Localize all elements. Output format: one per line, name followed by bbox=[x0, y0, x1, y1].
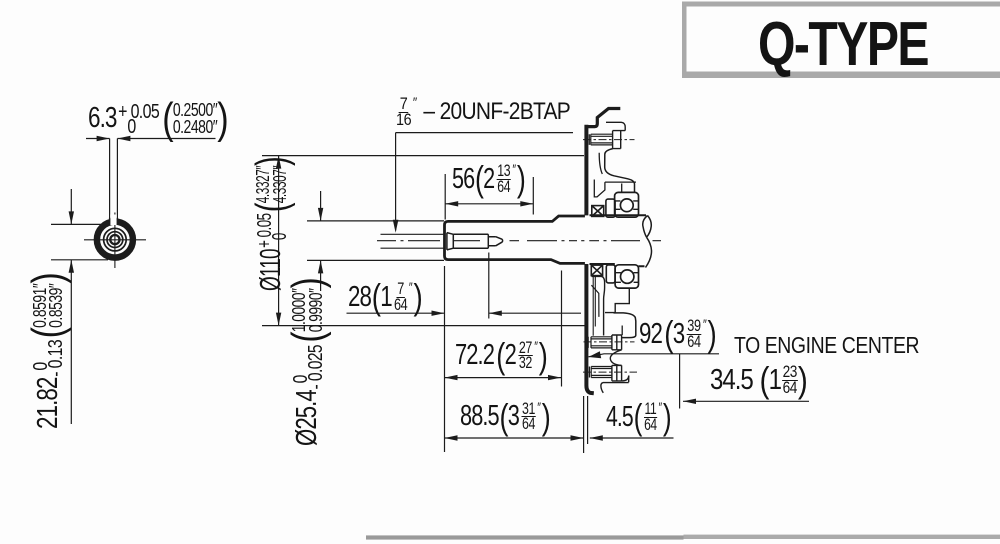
wire: 72.2 extension line at step bbox=[561, 271, 563, 387]
center hole circle 1 bbox=[104, 228, 127, 251]
arrow 6.3 right bbox=[117, 136, 130, 141]
arrow O25.4 top bbox=[318, 208, 323, 221]
label 92 bbox=[639, 317, 716, 351]
bearing housing bottom bbox=[615, 265, 638, 288]
wire: 72.2 dimension line bbox=[445, 377, 562, 379]
wire: shaft-end long extension line bbox=[444, 266, 446, 452]
wire: 34.5 dimension line bbox=[683, 400, 809, 402]
label 56 bbox=[452, 162, 525, 196]
label 7/16-20UNF-2BTAP bbox=[396, 96, 570, 128]
bearing housing top bbox=[615, 192, 639, 217]
arrow 7/16 leader down bbox=[393, 220, 399, 233]
label 4.5 bbox=[606, 402, 671, 432]
stud 1 centerline bbox=[583, 139, 635, 141]
wire: 56 extension lines bbox=[445, 174, 533, 220]
tapped hole countersink bbox=[447, 233, 453, 250]
wire: O110 extension lines bbox=[262, 156, 586, 326]
bottom gray bar left bbox=[366, 535, 684, 539]
label Q-TYPE bbox=[758, 16, 928, 72]
wire: 28 extension line at thread depth bbox=[488, 253, 490, 319]
label 21.82 rotated bbox=[27, 273, 69, 429]
label 28 bbox=[348, 283, 422, 311]
case inner diagonal bbox=[591, 285, 599, 317]
case contour above stud 2 bbox=[621, 326, 623, 336]
arrow 6.3 left bbox=[97, 136, 110, 141]
case inner contour bbox=[599, 153, 602, 174]
arrow O25.4 bottom bbox=[318, 260, 323, 273]
wire: 88.5 dimension line bbox=[445, 437, 584, 439]
stud 3 rod bbox=[589, 367, 612, 378]
oil seal top (X box) bbox=[592, 206, 604, 217]
arrow 72.2 right bbox=[548, 375, 561, 380]
stud 2 rod bbox=[588, 337, 612, 348]
ball bearing bottom bbox=[621, 270, 634, 283]
label 34.5 bbox=[710, 366, 807, 394]
shaft break lens bbox=[643, 216, 652, 268]
shaft outline left portion bbox=[445, 216, 585, 263]
case lower step contour bbox=[605, 288, 629, 313]
wire: O110 dimension vertical bbox=[278, 156, 280, 326]
keyway slot walls bbox=[110, 218, 118, 225]
case lower outer contour bbox=[614, 313, 636, 338]
node: end view center crosshair bbox=[84, 213, 146, 269]
case lower left wavy contour bbox=[592, 276, 605, 335]
wire: 92 leader line bbox=[589, 354, 720, 357]
wire: 21.82 extension lines bbox=[51, 224, 108, 259]
center hole circle 3 bbox=[110, 235, 119, 244]
label O25.4 rotated bbox=[285, 278, 330, 446]
wire: 7/16 leader vertical bbox=[395, 133, 397, 231]
Q-TYPE box bottom border bbox=[682, 72, 1000, 79]
arrow 56 right bbox=[520, 201, 533, 206]
stud 3 boss bbox=[612, 365, 622, 381]
ear inner lines bbox=[606, 122, 625, 130]
oil seal bottom (X box) bbox=[591, 265, 602, 276]
wire: O25.4 dimension verticals bbox=[320, 191, 322, 291]
Q-TYPE box left border bbox=[682, 2, 687, 79]
tapped hole body bbox=[453, 234, 488, 248]
wire: 6.3 dimension line bbox=[86, 138, 216, 140]
shaft outline right portion bbox=[590, 215, 647, 266]
label O110 rotated bbox=[247, 157, 296, 291]
mounting face thick line bbox=[586, 125, 593, 393]
wire: 7/16 leader underline bbox=[396, 132, 573, 134]
wire: mounting face extension lines bbox=[584, 396, 588, 453]
wire: keyway extension lines up to 6.3 dim bbox=[110, 139, 118, 220]
arrow 56 left bbox=[445, 201, 458, 206]
keyway slot cutout bbox=[110, 215, 116, 226]
stud 1 rod bbox=[589, 134, 612, 145]
bearing races bottom bbox=[615, 273, 638, 283]
wire: 34.5 extension line bbox=[679, 354, 681, 409]
label TO ENGINE CENTER bbox=[734, 335, 919, 355]
wire: tapped hole extension lines bbox=[381, 234, 445, 248]
stud 3 centerline bbox=[583, 371, 637, 373]
label 72.2 bbox=[455, 342, 547, 369]
shaft centerline bbox=[377, 240, 661, 242]
drill pilot and cone bbox=[488, 237, 502, 246]
arrow 28 left bbox=[432, 311, 445, 316]
arrow 72.2 left bbox=[445, 375, 458, 380]
bottom gray bar right bbox=[684, 535, 1000, 539]
arrow 34.5 left bbox=[683, 399, 696, 404]
case contour below ear bbox=[605, 149, 635, 193]
Q-TYPE box top border bbox=[682, 2, 1000, 7]
top mounting ear (thick) bbox=[586, 109, 620, 127]
arrow 21.82 top bbox=[69, 211, 74, 224]
center hole circle 2 bbox=[107, 232, 123, 248]
seal retainer bottom bbox=[606, 265, 615, 283]
case face thin pair bbox=[593, 277, 595, 336]
wire: 28 dimension lines bbox=[347, 312, 582, 314]
arrow O110 up bbox=[276, 156, 281, 169]
waist between studs bbox=[610, 350, 621, 366]
stud 1 boss bbox=[613, 131, 621, 149]
seal retainer top bbox=[606, 199, 615, 217]
ball bearing top bbox=[620, 199, 633, 212]
arrow 92 leader bbox=[589, 351, 602, 358]
shaft end view outer ring bbox=[97, 222, 133, 258]
arrow 21.82 bottom bbox=[69, 260, 74, 273]
arrow 88.5 right bbox=[571, 435, 584, 440]
stud 2 centerline bbox=[584, 341, 635, 343]
arrow 88.5 left bbox=[445, 435, 458, 440]
wire: 56 dimension line bbox=[445, 203, 533, 205]
wire: 21.82 dimension verticals bbox=[70, 189, 72, 424]
arrow 4.5 left bbox=[590, 435, 603, 440]
wire: 4.5 dimension line bbox=[590, 437, 674, 439]
bearing races top bbox=[615, 201, 639, 209]
arrow 28 right bbox=[489, 311, 502, 316]
stud 2 boss bbox=[612, 335, 622, 350]
case bottom bulge bbox=[622, 376, 629, 381]
case pocket above bearing bbox=[594, 180, 636, 197]
label 6.3 keyway width bbox=[88, 96, 228, 141]
label 88.5 bbox=[460, 401, 550, 432]
arrow O110 down bbox=[276, 313, 281, 326]
wire: O25.4 extension lines bbox=[307, 221, 444, 261]
case bottom edge bbox=[601, 376, 629, 393]
